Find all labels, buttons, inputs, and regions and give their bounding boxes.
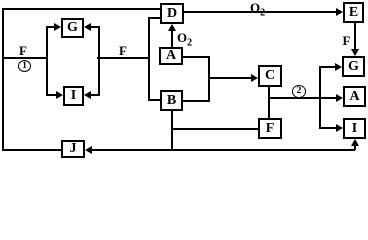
wire bottom-left: into J left edge <box>2 149 61 151</box>
label F (middle) <box>119 44 127 57</box>
label circled 2 <box>292 85 306 98</box>
wire bus stub into I right-column <box>319 127 336 129</box>
box B <box>160 90 183 111</box>
box C <box>258 65 282 87</box>
wire bus stub into G right-column <box>319 66 335 68</box>
wire vertical x148 linking D, F line and B <box>148 17 150 101</box>
wire C bottom vertical to F box <box>268 87 270 118</box>
wire top: J loop upper segment into D <box>2 8 160 10</box>
box A middle <box>159 47 183 65</box>
wire arrow line into I right <box>89 94 99 96</box>
label F (left) <box>19 44 27 57</box>
box G right <box>342 56 365 77</box>
box D <box>160 3 184 24</box>
wire right vertical of G/I loop <box>98 26 100 96</box>
arrowhead into I right <box>84 91 91 99</box>
wire right bus vertical x320 <box>319 66 321 129</box>
arrowhead into C left <box>251 74 258 82</box>
label F (E to G arrow) <box>343 34 351 47</box>
label O2 (D to E arrow) <box>250 1 265 14</box>
arrowhead into G right <box>84 23 91 31</box>
wire arrow line to C <box>208 77 251 79</box>
arrowhead into E left <box>336 8 343 16</box>
arrowhead into A right-column <box>336 94 343 102</box>
label circled 1 <box>18 60 31 72</box>
wire B right stub <box>183 100 210 102</box>
wire arrow line into I left <box>46 94 58 96</box>
wire up into I right-column bottom <box>354 143 356 150</box>
box A right <box>343 86 366 107</box>
wire left border: J loop vertical <box>2 8 4 151</box>
wire left vertical of G/I loop <box>46 26 48 96</box>
wire arrow A up to D <box>171 28 173 47</box>
box I right <box>343 118 366 139</box>
wire arrow line into G left <box>46 26 56 28</box>
wire D to E line <box>184 11 336 13</box>
wire vertical x208 joining A and B <box>208 56 210 102</box>
arrowhead bus into I right-column <box>336 124 343 132</box>
wire F line middle segment <box>97 57 150 59</box>
arrowhead into I left <box>56 91 63 99</box>
box I left <box>63 86 84 106</box>
arrowhead into G right-column top <box>351 49 359 56</box>
arrowhead into J right <box>85 146 92 154</box>
wire stub into D left <box>148 17 160 19</box>
arrowhead into D bottom <box>168 24 176 31</box>
box F <box>258 118 282 139</box>
arrowhead into I right-column bottom <box>351 139 359 146</box>
wire arrow line into G right <box>89 26 99 28</box>
wire feed into F box left <box>171 128 258 130</box>
wire E down to G right <box>354 23 356 50</box>
wire A right stub <box>183 56 210 58</box>
wire F line left segment <box>2 57 48 59</box>
box G left <box>61 18 84 38</box>
arrowhead into G left <box>54 23 61 31</box>
wire stub into B left <box>148 99 160 101</box>
arrowhead bus into G right-column <box>335 63 342 71</box>
wire circled-2 line to A right <box>268 97 337 99</box>
box E <box>343 2 364 23</box>
wire B bottom vertical <box>171 111 173 151</box>
label O2 (A to D arrow) <box>177 31 192 44</box>
box J <box>61 140 85 158</box>
wire bottom bus <box>91 149 355 151</box>
